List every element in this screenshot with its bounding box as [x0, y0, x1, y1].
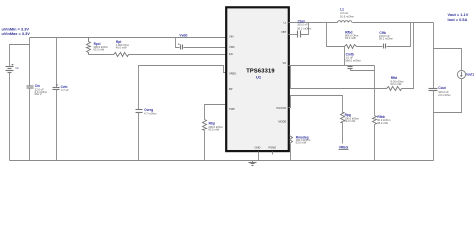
svg-text:VDD: VDD: [229, 45, 235, 49]
resistor Rfbb: [373, 89, 392, 161]
wire load return: [434, 79, 462, 113]
svg-text:Cvreg: Cvreg: [144, 108, 153, 112]
wire L1 to Vout node: [353, 22, 434, 24]
annotation VinMin/VinMax: [2, 27, 31, 37]
voltage source V1: [6, 65, 20, 73]
wire Cffb to Vout node: [387, 23, 411, 47]
svg-text:L1: L1: [340, 7, 344, 11]
svg-text:Cin: Cin: [35, 84, 40, 88]
pin chevrons MODE strap: [290, 136, 293, 144]
wire TRIP pin: [205, 105, 227, 120]
wire VREG pin loop: [139, 66, 227, 110]
wire battery bottom to ground rail: [9, 73, 11, 161]
capacitor Cvdd: [179, 44, 183, 50]
inductor L1: [338, 7, 355, 22]
svg-text:56.2 mOhm: 56.2 mOhm: [297, 26, 312, 30]
wire Cvdd to IC VDD pin: [184, 47, 227, 49]
svg-text:Iout = 0.5A: Iout = 0.5A: [448, 17, 468, 22]
svg-text:VO: VO: [282, 61, 286, 65]
svg-text:GND: GND: [255, 146, 261, 150]
resistor Rpg: [341, 113, 360, 144]
node VREG: [339, 145, 349, 149]
svg-text:Rtrp: Rtrp: [209, 122, 216, 126]
capacitor Cvin: [53, 38, 69, 161]
wire Vout node down through Cout: [433, 23, 435, 89]
ground: [249, 161, 257, 166]
svg-text:Vin: Vin: [15, 66, 19, 70]
resistor Rmodeg label: [296, 135, 311, 144]
svg-text:63.0 mW: 63.0 mW: [377, 121, 388, 125]
capacitor Cin: [27, 45, 48, 161]
wire VO pin: [289, 65, 375, 67]
resistor Rpt: [114, 40, 130, 57]
IC U1 TPS63319: [226, 7, 289, 151]
svg-text:VREG: VREG: [339, 145, 349, 149]
annotation Vout/Iout: [448, 12, 469, 22]
capacitor Cmfb: [345, 52, 374, 70]
svg-text:Cout: Cout: [438, 86, 446, 90]
svg-text:Rpg: Rpg: [345, 113, 351, 117]
svg-text:566.0 mOhm: 566.0 mOhm: [345, 59, 361, 63]
wire GND pin to rail: [258, 152, 260, 161]
svg-text:56.2 mOhm: 56.2 mOhm: [379, 36, 394, 40]
wire FB from IC: [291, 66, 387, 89]
svg-text:VBT: VBT: [281, 30, 286, 34]
svg-text:VREG: VREG: [229, 71, 236, 75]
svg-text:63.3 mW: 63.3 mW: [93, 47, 104, 51]
stub PGND: [272, 152, 274, 155]
resistor Rpcl: [87, 38, 109, 55]
wire Rpcl to Rpt: [89, 54, 114, 56]
capacitor Cbst: [289, 19, 313, 37]
wire PGOOD: [289, 96, 343, 113]
wire battery top to Vin rail: [10, 38, 30, 67]
svg-text:63.2 mW: 63.2 mW: [345, 36, 356, 40]
svg-text:PGND: PGND: [269, 146, 277, 150]
resistor Rfbt: [387, 76, 405, 91]
svg-text:U1: U1: [256, 75, 262, 80]
wire Rfbt to Vout node riser: [402, 23, 414, 89]
svg-text:4.7 mOhm: 4.7 mOhm: [144, 112, 157, 116]
svg-text:PGOOD: PGOOD: [277, 106, 287, 110]
svg-text:100.0 nF: 100.0 nF: [297, 23, 308, 27]
svg-text:TRIP: TRIP: [229, 107, 235, 111]
wire Rfbd to Cffb: [357, 46, 383, 48]
svg-text:63.2 mW: 63.2 mW: [391, 82, 402, 86]
ground rail: [10, 160, 434, 162]
svg-text:BP: BP: [229, 87, 233, 91]
wire Vin rail to IC VIN pin: [30, 37, 227, 39]
wire Vout to load: [434, 49, 462, 71]
svg-text:2.0 mOhm: 2.0 mOhm: [438, 93, 451, 97]
svg-text:10.6 mOhm: 10.6 mOhm: [340, 14, 355, 18]
wire VO to Rfbd junction: [344, 47, 346, 66]
svg-text:TPS63319: TPS63319: [246, 69, 274, 75]
current source Iout1: [457, 70, 474, 78]
svg-text:40.0 mW: 40.0 mW: [116, 46, 127, 50]
capacitor Cvreg: [136, 108, 158, 161]
svg-text:63.0 mW: 63.0 mW: [296, 141, 307, 145]
svg-text:Cbst: Cbst: [298, 19, 306, 23]
svg-text:EN: EN: [229, 52, 233, 56]
wire Rpt to IC EN pin: [129, 54, 227, 56]
wire mode pin to ground rail: [290, 144, 292, 161]
wire VO down to FB wire: [374, 66, 376, 89]
svg-text:VIN: VIN: [229, 35, 233, 39]
svg-text:Mur 2: Mur 2: [35, 92, 42, 96]
capacitor Cffb: [379, 31, 394, 49]
resistor Rtrp: [203, 120, 224, 161]
svg-text:Iout1: Iout1: [466, 73, 474, 77]
capacitor Cout: [429, 86, 452, 160]
svg-text:MODE: MODE: [278, 120, 286, 124]
wire Vin to Cvdd: [176, 38, 180, 48]
svg-text:63.0 mW: 63.0 mW: [208, 128, 219, 132]
svg-text:uVinMax = 3.3V: uVinMax = 3.3V: [2, 31, 31, 36]
svg-text:63.0 mW: 63.0 mW: [344, 119, 355, 123]
wire Lx node to Rfbd branch: [327, 23, 345, 47]
wire Lx to L1: [289, 22, 338, 24]
svg-text:4.7 uF: 4.7 uF: [61, 88, 69, 92]
resistor Rfbd: [345, 31, 360, 49]
svg-text:Vvdd: Vvdd: [179, 34, 187, 38]
